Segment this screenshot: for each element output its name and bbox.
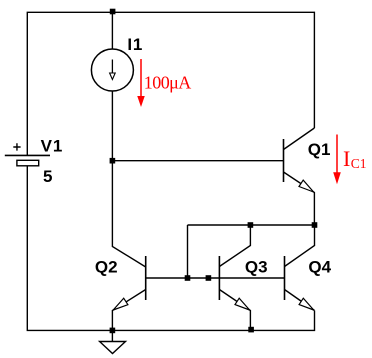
svg-text:V1: V1 — [41, 137, 64, 156]
svg-text:Q2: Q2 — [95, 257, 118, 276]
svg-text:I: I — [343, 146, 350, 171]
svg-text:5: 5 — [43, 167, 52, 186]
svg-text:Q1: Q1 — [308, 140, 331, 159]
svg-text:Q4: Q4 — [308, 258, 331, 277]
svg-text:I1: I1 — [127, 35, 143, 54]
svg-text:100μA: 100μA — [144, 73, 191, 93]
svg-text:C1: C1 — [351, 156, 367, 171]
svg-text:Q3: Q3 — [245, 258, 268, 277]
